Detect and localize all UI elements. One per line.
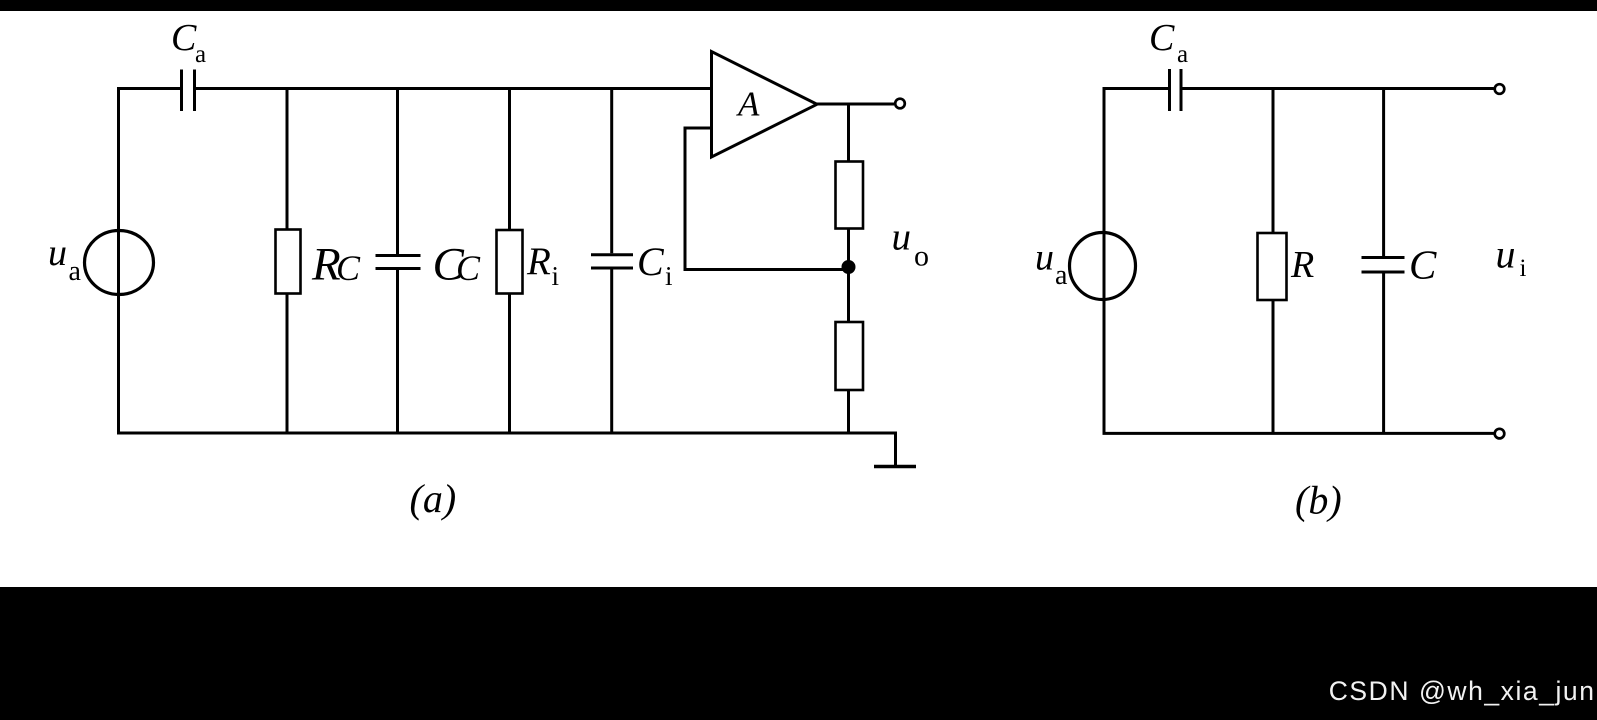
svg-text:C: C: [171, 17, 197, 59]
svg-text:i: i: [1520, 255, 1527, 282]
svg-text:C: C: [1409, 242, 1437, 288]
svg-text:o: o: [914, 240, 929, 273]
svg-text:CSDN @wh_xia_jun: CSDN @wh_xia_jun: [1329, 676, 1596, 706]
svg-text:i: i: [552, 261, 560, 291]
svg-text:(b): (b): [1295, 478, 1342, 523]
svg-text:u: u: [892, 216, 912, 259]
svg-text:u: u: [1035, 236, 1054, 278]
svg-text:u: u: [48, 232, 67, 274]
svg-text:(a): (a): [410, 476, 457, 521]
svg-text:i: i: [665, 261, 673, 291]
svg-text:a: a: [1177, 41, 1188, 68]
svg-text:a: a: [69, 256, 82, 287]
svg-text:C: C: [1149, 17, 1175, 59]
svg-text:a: a: [1055, 260, 1068, 291]
svg-text:u: u: [1496, 231, 1516, 276]
svg-text:C: C: [336, 248, 361, 288]
svg-text:R: R: [526, 240, 551, 283]
svg-text:A: A: [736, 85, 760, 124]
svg-text:C: C: [637, 239, 665, 284]
svg-text:a: a: [195, 41, 206, 68]
svg-text:C: C: [456, 248, 481, 288]
svg-text:R: R: [1290, 244, 1314, 286]
